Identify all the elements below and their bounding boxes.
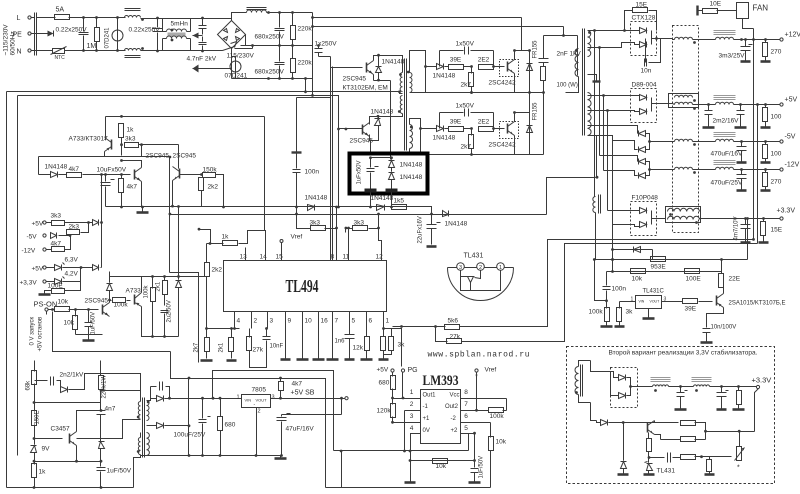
svg-text:1N4148: 1N4148: [305, 195, 328, 202]
wire: [493, 113, 495, 129]
wire: [101, 223, 103, 268]
wire: [765, 187, 767, 190]
diode stby sec2: [157, 423, 164, 429]
wire pin11 up: [348, 230, 350, 248]
wire bridge minus: [231, 49, 233, 57]
resistor 3k reg: [617, 308, 622, 322]
wire PS-ON a: [53, 312, 171, 352]
wire: [47, 249, 52, 251]
inductor L-12V: [675, 167, 693, 169]
svg-text:+5V: +5V: [785, 97, 798, 104]
wire jog: [170, 273, 199, 363]
junction: [430, 213, 433, 216]
wire 100n loop: [595, 260, 607, 301]
wire: [369, 228, 379, 230]
bold stub2: [386, 189, 398, 193]
wire: [431, 215, 433, 225]
wire: [619, 322, 621, 326]
res lead: [292, 46, 294, 59]
svg-text:LM393: LM393: [423, 373, 459, 389]
junction: [764, 140, 767, 143]
svg-text:1N4148: 1N4148: [371, 109, 394, 116]
terminal: [43, 280, 46, 283]
wire left drop: [169, 157, 171, 273]
svg-text:10uFx50V: 10uFx50V: [97, 167, 127, 174]
wire -12V out: [650, 169, 675, 171]
wire: [232, 78, 313, 80]
svg-text:-12V: -12V: [785, 162, 800, 169]
capacitor 4m7/10V: [741, 225, 751, 229]
wire: [392, 373, 394, 377]
TL431 tick: [645, 462, 648, 463]
resistor 100: [541, 67, 546, 81]
variant core: [581, 365, 583, 397]
wire: [88, 335, 90, 340]
junction: [201, 50, 204, 53]
wire: [150, 387, 152, 399]
junction: [304, 90, 307, 93]
wire: [378, 215, 380, 229]
wire: [69, 309, 99, 311]
junction: [168, 397, 171, 400]
junction: [756, 103, 759, 106]
svg-text:60/50Hz: 60/50Hz: [10, 31, 17, 55]
wire: [471, 87, 473, 93]
junction: [752, 38, 755, 41]
wire: [202, 29, 204, 35]
junction: [171, 205, 174, 208]
diode pson: [107, 284, 113, 291]
terminal pin 3: [457, 263, 465, 271]
resistor 4k7 left2: [119, 179, 124, 193]
wire: [281, 422, 283, 456]
wire: [280, 391, 282, 399]
resistor 3k3 b: [353, 226, 368, 231]
zener variant: [621, 462, 627, 469]
wire pin 2 down: [251, 312, 253, 329]
wire: [100, 390, 102, 408]
junction: [764, 168, 767, 171]
wire pin8: [461, 398, 507, 400]
capacitor 680x250V top: [275, 29, 285, 31]
wire: [371, 133, 379, 141]
wire: [59, 235, 67, 237]
wire: [741, 170, 743, 175]
svg-text:1uF/50V: 1uF/50V: [91, 312, 97, 335]
junction: [470, 91, 473, 94]
junction: [209, 242, 212, 245]
wire: [256, 408, 258, 456]
wire: [649, 457, 665, 459]
svg-text:4k7: 4k7: [69, 166, 80, 173]
capacitor 4.7nF b: [199, 43, 207, 45]
wire: [745, 40, 747, 47]
svg-text:10E: 10E: [710, 1, 722, 8]
wire: [100, 408, 102, 411]
wire pin 8: [336, 248, 338, 261]
ground: [227, 359, 237, 362]
svg-text:C3457: C3457: [51, 426, 71, 433]
wire: [190, 39, 192, 51]
wire: [122, 161, 142, 168]
choke core lines: [247, 8, 267, 10]
svg-text:6,3V: 6,3V: [65, 257, 79, 264]
terminal +3.3V variant: [756, 385, 759, 388]
svg-text:1N4148: 1N4148: [400, 174, 423, 181]
wire -5V out: [650, 141, 675, 143]
svg-text:2: 2: [254, 318, 258, 325]
svg-text:2SA1015/KT3107Б,Е: 2SA1015/KT3107Б,Е: [729, 301, 786, 307]
wire: [765, 170, 767, 173]
wire: [101, 391, 141, 402]
svg-text:2k7: 2k7: [461, 144, 472, 151]
junction: [104, 173, 107, 176]
wire: [440, 112, 464, 114]
ground: [345, 358, 355, 361]
svg-text:D89-004: D89-004: [632, 82, 657, 89]
terminal PE: [28, 32, 31, 35]
ground: [735, 126, 747, 129]
junction: [611, 258, 614, 261]
terminal: [43, 266, 46, 269]
transformer T3 core: [143, 398, 145, 458]
wire fan: [743, 19, 754, 29]
ground: [137, 211, 149, 214]
wire: [105, 117, 106, 140]
wire: [738, 405, 740, 409]
resistor 100k reg: [605, 308, 610, 322]
wire: [202, 37, 204, 42]
wire: [623, 423, 625, 461]
inductor T1 secondary top: [588, 31, 591, 57]
wire pin 11: [348, 248, 350, 261]
svg-text:+12V: +12V: [785, 32, 800, 39]
junction: [201, 454, 204, 457]
wire: [741, 142, 743, 147]
wire: [708, 115, 710, 127]
junction: [291, 44, 294, 47]
inductor L-5V: [675, 139, 693, 141]
svg-text:CTX128: CTX128: [632, 15, 656, 22]
diode -5V b: [639, 147, 646, 153]
junction: [391, 397, 394, 400]
junction: [222, 206, 225, 209]
wire pin 5 down: [349, 312, 351, 329]
inductor 5mHn bottom: [167, 36, 187, 39]
wire: [740, 115, 742, 127]
svg-text:1N4148: 1N4148: [45, 164, 68, 171]
junction: [434, 325, 437, 328]
wire: [745, 229, 747, 242]
svg-text:A733/КТ3017: A733/КТ3017: [69, 136, 109, 143]
svg-text:270: 270: [771, 49, 782, 56]
wire: [57, 381, 61, 390]
resistor 2k3: [67, 230, 80, 235]
wire to bus B: [312, 79, 314, 96]
ground: [275, 457, 287, 460]
svg-text:10k: 10k: [58, 299, 69, 306]
wire pot top: [739, 432, 741, 447]
bold stub: [365, 189, 377, 193]
wire diode join: [651, 98, 653, 112]
wire: [706, 333, 708, 342]
junction: [177, 275, 180, 278]
junction: [377, 115, 380, 118]
svg-text:1: 1: [237, 395, 240, 401]
svg-text:0.22x250V: 0.22x250V: [129, 27, 161, 34]
svg-text:5: 5: [464, 425, 468, 432]
ground: [643, 317, 655, 320]
wire: [493, 51, 495, 67]
wire: [400, 92, 403, 94]
wire: [695, 456, 732, 458]
junction: [655, 37, 658, 40]
wire: [134, 455, 141, 488]
inductor core -12V: [716, 167, 734, 169]
capacitor 1x250V: [315, 49, 323, 53]
capacitor 2m2 a: [705, 111, 713, 115]
resistor 5k6: [445, 325, 460, 330]
capacitor 2n2/1kV: [51, 377, 54, 386]
wire: [741, 179, 743, 190]
svg-text:10n/100V: 10n/100V: [711, 325, 737, 331]
svg-text:4.7nF 2kV: 4.7nF 2kV: [187, 56, 217, 63]
wire: [627, 378, 631, 396]
svg-text:0V: 0V: [423, 428, 430, 434]
ground: [705, 473, 715, 476]
junction: [51, 308, 54, 311]
junction: [470, 127, 473, 130]
wire: [165, 425, 189, 427]
wire: [471, 67, 473, 74]
resistor 3k b: [389, 337, 394, 351]
wire: [383, 355, 385, 359]
wire: [763, 219, 765, 222]
wire bottom rail: [530, 154, 544, 156]
wire: [461, 433, 475, 435]
inductor T2 right bottom: [410, 125, 413, 149]
svg-text:VOUT: VOUT: [650, 300, 661, 304]
junction: [120, 143, 123, 146]
wire fb +5V: [462, 244, 758, 342]
svg-text:22uFx16V: 22uFx16V: [418, 216, 424, 243]
svg-text:Vref: Vref: [291, 234, 303, 241]
resistor variant5: [707, 460, 712, 472]
resistor 3k3 ctrl: [125, 143, 139, 148]
wire: [734, 141, 780, 143]
diode variant1: [619, 375, 626, 381]
wire: [765, 122, 767, 127]
wire pin7: [461, 410, 489, 412]
choke box 3V3: [666, 207, 701, 223]
svg-text:47uF/16V: 47uF/16V: [286, 426, 315, 433]
wire: [494, 128, 505, 130]
wire: [202, 424, 204, 456]
ground: [405, 481, 416, 484]
capacitor 1x50V: [465, 109, 469, 117]
inductor L3V3b: [668, 216, 700, 219]
ground: [39, 293, 51, 296]
svg-text:100n: 100n: [612, 286, 627, 293]
wire: [693, 39, 716, 41]
wire ch2 rail: [421, 129, 426, 155]
wire: [620, 301, 636, 303]
core -5V: [714, 133, 736, 137]
resistor 2k7b: [205, 338, 210, 352]
inductor T3 sec2: [147, 433, 150, 456]
resistor variant6 pot: [737, 447, 742, 461]
wire: [297, 215, 311, 229]
wire: [366, 351, 368, 359]
svg-text:100uF/25V: 100uF/25V: [174, 432, 206, 439]
T bar: [292, 151, 302, 153]
svg-text:1x50V: 1x50V: [456, 41, 475, 48]
wire long drive: [106, 116, 265, 118]
junction: [410, 126, 413, 129]
junction: [156, 50, 159, 53]
resistor 15E: [633, 8, 648, 13]
wire to pin8: [336, 207, 338, 248]
wire: [597, 421, 601, 423]
diode 1N4148: [437, 64, 444, 70]
capacitor 1n6: [345, 335, 355, 339]
inductor output choke: [247, 10, 267, 13]
wire: [151, 386, 157, 388]
svg-text:1n6: 1n6: [335, 339, 346, 345]
junction: [492, 65, 495, 68]
wire: [216, 175, 224, 207]
wire pin2: [475, 271, 481, 279]
junction: [267, 11, 270, 14]
junction: [33, 460, 36, 463]
wire: [391, 180, 393, 207]
junction: [390, 156, 393, 159]
junction: [629, 385, 632, 388]
ground: [618, 473, 629, 476]
diode CTX128 2: [640, 42, 647, 48]
svg-text:1k5: 1k5: [394, 198, 405, 205]
capacitor 3m3/25V: [741, 47, 751, 51]
svg-text:+3.3V: +3.3V: [777, 208, 796, 215]
wire to upper switch collector: [521, 18, 523, 51]
svg-text:220k: 220k: [298, 60, 313, 67]
wire: [407, 207, 432, 215]
wire: [281, 415, 283, 417]
wire: [166, 387, 170, 399]
wire: [474, 473, 476, 482]
wire: [577, 61, 579, 76]
wire pin 12: [381, 248, 383, 261]
cap lead: [279, 32, 281, 46]
capacitor X: [153, 29, 163, 32]
diode TL431 variant: [647, 464, 653, 471]
wire ch1 emitter rail left: [425, 67, 427, 93]
terminal Vref2: [475, 369, 478, 379]
resistor 27k: [247, 337, 252, 351]
junction: [291, 77, 294, 80]
junction: [419, 127, 422, 130]
wire standby bottom rail: [7, 487, 134, 489]
terminal: [780, 217, 783, 220]
svg-text:39E: 39E: [450, 57, 462, 64]
wire: [383, 329, 385, 337]
wire: [121, 175, 123, 179]
svg-text:2E2: 2E2: [478, 57, 490, 64]
wire: [77, 420, 141, 439]
wire: [632, 156, 638, 162]
ground: [761, 189, 771, 192]
resistor 10k pson2: [73, 316, 78, 330]
junction: [141, 206, 144, 209]
wire: [239, 231, 266, 248]
wire variant base rail: [609, 422, 679, 424]
wire: [312, 46, 314, 79]
wire: [152, 277, 154, 289]
wire pin 3 down: [267, 312, 269, 329]
wire U left leg: [341, 451, 343, 488]
junction: [198, 228, 201, 231]
svg-text:10k: 10k: [632, 276, 643, 283]
svg-text:FR155: FR155: [533, 102, 539, 121]
terminal: [780, 103, 783, 106]
terminal pin 2: [477, 263, 485, 271]
wire rail B: [170, 214, 547, 216]
svg-text:5k6: 5k6: [448, 318, 459, 325]
transistor A733 b: [135, 293, 142, 307]
svg-text:+5V останов: +5V останов: [38, 317, 44, 352]
wire: [734, 104, 780, 106]
highlight box: [350, 154, 428, 194]
res lead: [292, 40, 294, 46]
wire: [81, 223, 89, 233]
ground: [281, 358, 291, 361]
wire: [206, 277, 208, 329]
svg-text:-12V: -12V: [22, 248, 36, 255]
wire: [632, 95, 640, 97]
resistor variant1: [737, 391, 742, 405]
junction: [140, 143, 143, 146]
wire: [699, 301, 713, 303]
wire sense: [612, 225, 614, 272]
ground: [313, 358, 325, 361]
wire: [67, 235, 71, 237]
wire: [632, 126, 638, 134]
wire: [370, 158, 372, 168]
junction: [744, 38, 747, 41]
varistor 07D241: [230, 61, 241, 73]
wire: [591, 361, 611, 372]
variant core1: [651, 378, 671, 382]
junction: [740, 140, 743, 143]
junction: [369, 206, 372, 209]
wire: [100, 472, 102, 488]
wire: [202, 68, 232, 70]
diode F10P048 2: [640, 222, 647, 228]
wire: [151, 398, 157, 400]
wire 5VSB rail: [165, 398, 242, 400]
svg-text:+2: +2: [451, 428, 459, 434]
diode D89-004 2: [640, 109, 647, 115]
junction: [255, 454, 258, 457]
wire emitter: [370, 135, 371, 141]
wire fb variant: [755, 389, 759, 432]
svg-text:+5V SB: +5V SB: [291, 390, 315, 397]
wire: [349, 329, 351, 335]
core 12V: [714, 31, 736, 35]
diode mon5: [93, 265, 99, 271]
ground: [601, 325, 613, 328]
svg-text:100k: 100k: [144, 284, 150, 298]
